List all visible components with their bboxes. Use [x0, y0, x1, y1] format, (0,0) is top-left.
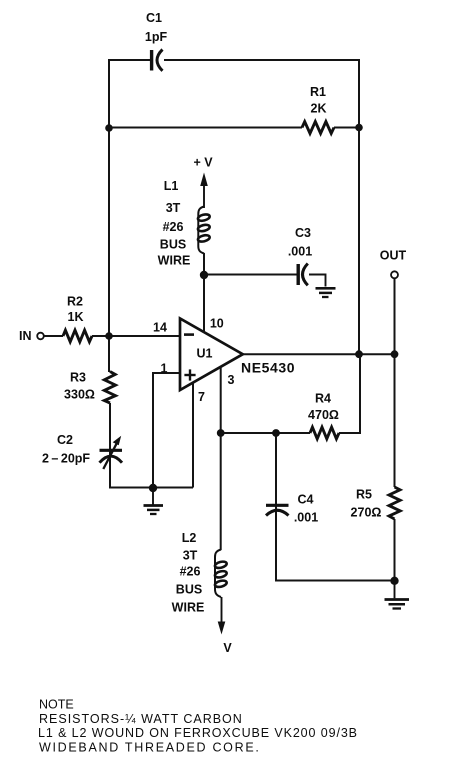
svg-text:L1 & L2 WOUND ON FERROXCUBE VK: L1 & L2 WOUND ON FERROXCUBE VK200 09/3B [38, 726, 358, 740]
wire OUT rail to R5 [394, 354, 396, 580]
wire IN lead [44, 335, 63, 337]
svg-text:.001: .001 [294, 511, 318, 525]
resistor R3 [104, 372, 115, 404]
wire C2 to ground row [110, 463, 193, 488]
wire top row left [109, 59, 150, 61]
inductor L1 [197, 207, 210, 254]
resistor R5 [389, 487, 400, 519]
svg-text:OUT: OUT [380, 249, 407, 263]
node ground junction (output side) [390, 577, 398, 585]
svg-text:1: 1 [161, 362, 168, 376]
wire R4 to output row [339, 354, 360, 433]
svg-text:R1: R1 [310, 85, 326, 99]
label L2 [172, 531, 205, 615]
op-amp minus input marker [184, 333, 194, 336]
wire pin 10 [203, 275, 205, 333]
ground output side [385, 581, 410, 609]
svg-text:C4: C4 [298, 493, 314, 507]
svg-text:IN: IN [19, 329, 32, 343]
svg-text:BUS: BUS [176, 583, 202, 597]
wire R4 row [221, 432, 310, 434]
svg-text:L2: L2 [182, 531, 197, 545]
svg-text:14: 14 [153, 321, 167, 335]
svg-text:270Ω: 270Ω [351, 506, 382, 520]
svg-text:7: 7 [198, 390, 205, 404]
wire second row left [109, 127, 302, 129]
svg-text:1pF: 1pF [145, 30, 168, 44]
supply V (negative rail arrow) [218, 597, 233, 655]
ground input side [144, 488, 164, 514]
svg-text:NOTE: NOTE [39, 698, 74, 712]
svg-text:WIRE: WIRE [172, 601, 205, 615]
svg-text:V: V [223, 641, 232, 655]
svg-text:3T: 3T [166, 201, 181, 215]
svg-text:U1: U1 [197, 347, 213, 361]
resistor R2 [63, 330, 92, 342]
wire output row [243, 353, 395, 355]
node ground junction (input side) [149, 484, 157, 492]
svg-text:R3: R3 [70, 371, 86, 385]
svg-text:L1: L1 [164, 179, 179, 193]
svg-text:470Ω: 470Ω [308, 408, 339, 422]
svg-text:BUS: BUS [160, 238, 186, 252]
svg-text:C1: C1 [146, 11, 162, 25]
wire L1 to junction [203, 253, 205, 275]
op-amp plus input marker [184, 369, 195, 380]
svg-text:1K: 1K [68, 310, 84, 324]
resistor R1 [302, 122, 334, 134]
node junction output / right rail [355, 350, 363, 358]
inductor L2 [214, 550, 227, 598]
wire right vertical rail [358, 59, 360, 354]
svg-text:RESISTORS-¼ WATT CARBON: RESISTORS-¼ WATT CARBON [39, 712, 243, 726]
svg-text:.001: .001 [288, 245, 312, 259]
wire left vertical rail [108, 59, 110, 372]
svg-text:2 – 20pF: 2 – 20pF [42, 452, 90, 466]
svg-text:2K: 2K [311, 102, 327, 116]
node junction R2 / left rail [105, 332, 113, 340]
svg-text:+ V: + V [193, 156, 213, 170]
svg-text:NE5430: NE5430 [241, 360, 295, 376]
svg-text:R5: R5 [356, 488, 372, 502]
svg-text:#26: #26 [163, 220, 184, 234]
wire R3 to C2 [109, 403, 111, 464]
svg-text:10: 10 [210, 317, 224, 331]
wire op-amp pin 3 [220, 367, 222, 434]
node junction C4 tap [272, 429, 280, 437]
svg-text:R4: R4 [315, 392, 331, 406]
wire C4 branch [275, 433, 277, 519]
note text [38, 698, 358, 755]
node junction L1 / C3 / pin10 [200, 271, 208, 279]
svg-text:WIRE: WIRE [158, 254, 191, 268]
op-amp U1 [180, 319, 243, 391]
terminal OUT [380, 249, 407, 355]
capacitor C4 [266, 505, 289, 515]
node junction pin3 / R4 row [217, 429, 225, 437]
svg-text:WIDEBAND THREADED CORE.: WIDEBAND THREADED CORE. [39, 740, 261, 754]
wire R2 to op-amp pin 14 [92, 335, 180, 337]
resistor R4 [310, 427, 339, 439]
node junction R1 / right rail [355, 124, 363, 132]
capacitor C1 [152, 50, 163, 71]
terminal IN [19, 329, 44, 343]
wire second row right [334, 127, 359, 129]
svg-text:#26: #26 [180, 565, 201, 579]
wire C4 to ground row [276, 517, 395, 581]
wire L2 branch upper [220, 433, 222, 550]
svg-text:3: 3 [228, 373, 235, 387]
wire op-amp pin 1 [153, 373, 180, 488]
wire op-amp pin 7 [192, 383, 194, 488]
svg-text:C2: C2 [57, 433, 73, 447]
wire top row right [164, 59, 359, 61]
capacitor C2 (variable) [100, 436, 123, 469]
wire junction to C3 [204, 274, 297, 276]
svg-text:C3: C3 [295, 226, 311, 240]
svg-text:3T: 3T [183, 549, 198, 563]
node junction output / OUT branch [391, 350, 399, 358]
supply +V [193, 156, 213, 209]
wire C3 to ground [309, 275, 326, 287]
capacitor C3 [298, 264, 308, 286]
svg-text:330Ω: 330Ω [64, 388, 95, 402]
ground C3 [316, 288, 336, 297]
svg-text:R2: R2 [67, 295, 83, 309]
label L1 [158, 179, 191, 268]
node junction left rail / second row [105, 124, 113, 132]
